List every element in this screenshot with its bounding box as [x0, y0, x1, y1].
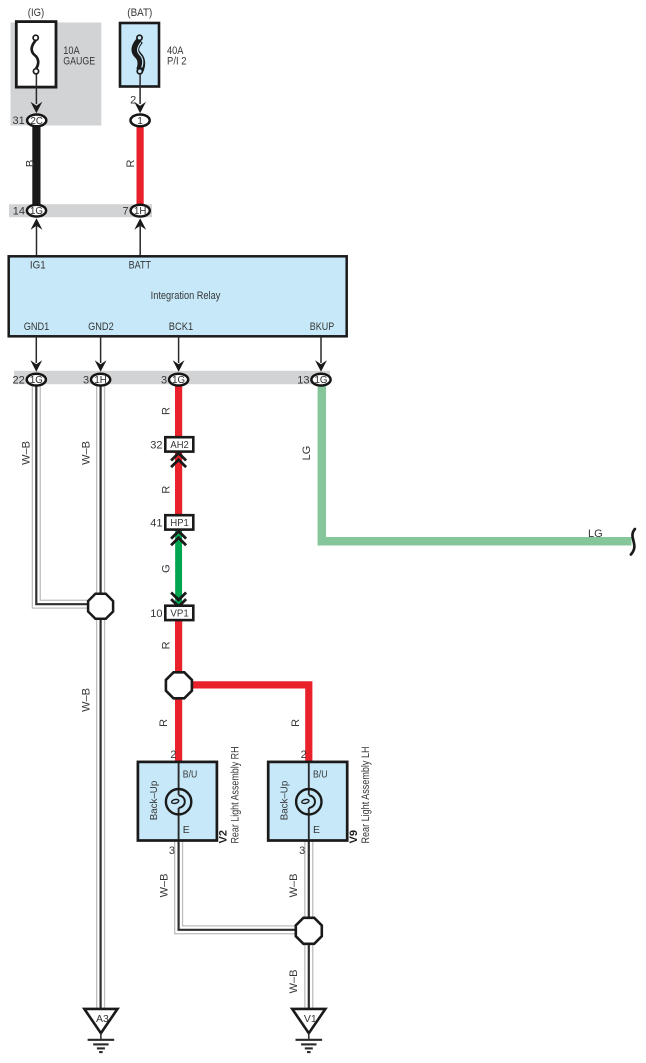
svg-text:W–B: W–B	[81, 688, 93, 712]
svg-text:Back–Up: Back–Up	[279, 780, 290, 820]
svg-text:V9: V9	[348, 830, 360, 843]
svg-text:V1: V1	[304, 1013, 317, 1025]
svg-text:1G: 1G	[30, 375, 43, 386]
svg-text:Rear Light Assembly RH: Rear Light Assembly RH	[230, 746, 242, 843]
svg-text:R: R	[290, 719, 302, 727]
svg-text:W–B: W–B	[81, 441, 93, 465]
svg-text:VP1: VP1	[170, 609, 189, 620]
svg-text:W–B: W–B	[288, 970, 300, 994]
svg-text:V2: V2	[218, 830, 230, 843]
svg-text:HP1: HP1	[170, 518, 189, 529]
svg-text:10: 10	[150, 608, 162, 620]
svg-text:R: R	[158, 719, 170, 727]
svg-text:LG: LG	[588, 528, 603, 540]
svg-text:32: 32	[150, 440, 162, 452]
svg-text:B/U: B/U	[313, 769, 328, 781]
svg-text:IG1: IG1	[30, 259, 46, 271]
svg-text:BKUP: BKUP	[310, 321, 334, 333]
svg-text:Rear Light Assembly LH: Rear Light Assembly LH	[360, 746, 372, 843]
svg-text:13: 13	[297, 374, 309, 386]
svg-text:LG: LG	[301, 446, 313, 461]
svg-text:3: 3	[169, 845, 175, 857]
svg-text:BATT: BATT	[129, 259, 152, 271]
svg-text:W–B: W–B	[158, 873, 170, 897]
svg-text:P/I 2: P/I 2	[167, 56, 187, 68]
svg-text:3: 3	[83, 374, 89, 386]
svg-text:E: E	[313, 824, 320, 836]
svg-text:1G: 1G	[315, 375, 328, 386]
svg-text:14: 14	[13, 205, 25, 217]
svg-text:1: 1	[137, 116, 142, 127]
svg-text:W–B: W–B	[288, 873, 300, 897]
svg-text:E: E	[183, 824, 190, 836]
svg-text:GAUGE: GAUGE	[63, 56, 95, 68]
svg-text:R: R	[161, 486, 173, 494]
svg-text:GND2: GND2	[88, 321, 114, 333]
svg-text:W–B: W–B	[21, 441, 33, 465]
svg-text:7: 7	[122, 205, 128, 217]
svg-text:2C: 2C	[31, 116, 43, 127]
svg-text:(IG): (IG)	[28, 7, 44, 19]
svg-text:A3: A3	[96, 1013, 109, 1025]
svg-text:1G: 1G	[172, 375, 185, 386]
svg-text:41: 41	[150, 518, 162, 530]
svg-text:(BAT): (BAT)	[127, 7, 152, 19]
svg-text:R: R	[161, 641, 173, 649]
svg-text:1H: 1H	[134, 206, 146, 217]
svg-text:B: B	[24, 160, 36, 167]
svg-text:22: 22	[13, 374, 25, 386]
svg-text:R: R	[125, 159, 137, 167]
svg-text:GND1: GND1	[24, 321, 50, 333]
svg-text:R: R	[161, 407, 173, 415]
svg-text:2: 2	[301, 749, 307, 761]
svg-text:G: G	[161, 564, 173, 573]
svg-text:2: 2	[130, 95, 136, 107]
svg-text:31: 31	[13, 115, 25, 127]
svg-text:1G: 1G	[30, 206, 43, 217]
svg-text:Integration Relay: Integration Relay	[151, 290, 221, 302]
svg-text:1H: 1H	[94, 375, 106, 386]
svg-text:3: 3	[161, 374, 167, 386]
svg-text:Back–Up: Back–Up	[149, 780, 160, 820]
svg-text:BCK1: BCK1	[169, 321, 193, 333]
svg-text:B/U: B/U	[183, 769, 198, 781]
svg-text:AH2: AH2	[170, 440, 189, 451]
svg-text:3: 3	[299, 845, 305, 857]
svg-text:2: 2	[170, 749, 176, 761]
